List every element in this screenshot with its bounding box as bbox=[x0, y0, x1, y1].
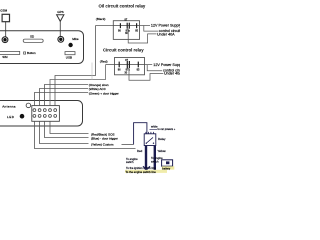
ignition line label bbox=[125, 170, 167, 174]
leader white to car powers bbox=[150, 128, 158, 130]
SIM slot bbox=[0, 51, 20, 59]
circuit relay internals bbox=[115, 59, 145, 75]
USB port bbox=[65, 52, 75, 60]
SD slot bbox=[23, 34, 43, 42]
leader yellow custom to relay bbox=[122, 144, 134, 146]
svg-text:Yellow: Yellow bbox=[157, 149, 166, 153]
GPS antenna bbox=[57, 10, 64, 21]
tracker unit box (top device) bbox=[0, 31, 84, 64]
thick red wire bbox=[145, 146, 147, 171]
oil relay control leader bbox=[144, 26, 158, 32]
wire orange siren bbox=[45, 85, 89, 106]
svg-text:SIM: SIM bbox=[2, 55, 8, 59]
crossed wires mark bbox=[143, 166, 150, 173]
label To engine (middle) bbox=[151, 156, 163, 163]
svg-text:Under 40A: Under 40A bbox=[157, 32, 175, 36]
svg-text:12V Power Supply: 12V Power Supply bbox=[153, 63, 180, 67]
microphone dot bbox=[68, 43, 72, 47]
svg-text:(Blue) - door trigger: (Blue) - door trigger bbox=[91, 137, 118, 141]
circuit relay box bbox=[115, 58, 145, 75]
svg-text:battery: battery bbox=[162, 166, 171, 170]
oil relay pin30 wire to Under 40A bbox=[128, 29, 156, 43]
black feed wire into oil relay bbox=[96, 25, 114, 27]
oil relay 12V leader bbox=[140, 25, 151, 27]
svg-text:switch: switch bbox=[126, 160, 134, 164]
car relay box bbox=[144, 132, 156, 146]
wire GSM antenna to connector bbox=[5, 22, 7, 37]
wire red engine bbox=[35, 121, 136, 148]
svg-text:Relay: Relay bbox=[158, 137, 166, 141]
wire blue door trigger bbox=[45, 121, 89, 137]
LED dot bbox=[20, 114, 25, 119]
svg-text:Button: Button bbox=[27, 51, 36, 55]
harness connector block bbox=[32, 106, 60, 122]
svg-text:Circuit control relay: Circuit control relay bbox=[103, 48, 144, 53]
svg-text:switch: switch bbox=[151, 159, 159, 163]
circuit relay 12V leader bbox=[145, 64, 153, 66]
svg-text:Under 40A: Under 40A bbox=[164, 72, 180, 76]
svg-text:(Yellow) Custom: (Yellow) Custom bbox=[91, 143, 114, 147]
oil relay box bbox=[113, 21, 139, 40]
svg-text:GPS: GPS bbox=[57, 10, 64, 14]
svg-text:(Green) + door trigger: (Green) + door trigger bbox=[89, 91, 119, 95]
svg-text:Red: Red bbox=[137, 149, 143, 153]
battery icon bbox=[162, 160, 173, 166]
wire GPS antenna to connector bbox=[59, 21, 61, 36]
thick yellow wire bbox=[154, 146, 156, 171]
label To engine (left) bbox=[126, 157, 138, 164]
svg-text:(Black): (Black) bbox=[96, 17, 106, 21]
harness unit box (lower device) bbox=[0, 101, 83, 127]
circuit relay pin30 wire to Under 40A bbox=[129, 68, 163, 80]
red feed wire into circuit relay bbox=[106, 64, 115, 66]
svg-text:Oil circuit control relay: Oil circuit control relay bbox=[99, 3, 146, 8]
right RF connector bbox=[58, 36, 64, 42]
svg-text:to car powers +: to car powers + bbox=[158, 127, 176, 131]
wire yellow custom bbox=[40, 121, 89, 143]
svg-text:(Red): (Red) bbox=[100, 59, 108, 63]
wire green door trigger bbox=[35, 93, 89, 106]
faint wire near circuit relay feed bbox=[91, 63, 93, 80]
wire white ACC bbox=[40, 89, 89, 106]
antenna jack circle bbox=[26, 103, 31, 108]
wire to circuit relay (red) bbox=[50, 65, 106, 106]
wire red/black SOS bbox=[50, 121, 89, 133]
svg-text:Mike: Mike bbox=[72, 37, 79, 41]
svg-text:Antenna: Antenna bbox=[2, 104, 16, 108]
svg-text:LED: LED bbox=[7, 115, 15, 119]
GSM antenna bbox=[0, 9, 9, 22]
svg-text:To the engine switch line: To the engine switch line bbox=[125, 170, 156, 174]
battery label bbox=[162, 166, 175, 170]
svg-text:12V Power Supply: 12V Power Supply bbox=[151, 24, 180, 28]
button marker bbox=[24, 52, 26, 54]
svg-text:USB: USB bbox=[66, 56, 72, 60]
svg-text:GSM: GSM bbox=[0, 9, 7, 13]
wire to oil relay (black) bbox=[55, 26, 96, 106]
left RF connector bbox=[2, 37, 8, 43]
navy riser wire to car relay bbox=[134, 123, 147, 145]
oil relay internals bbox=[113, 18, 139, 35]
circuit relay control leader bbox=[147, 65, 162, 71]
